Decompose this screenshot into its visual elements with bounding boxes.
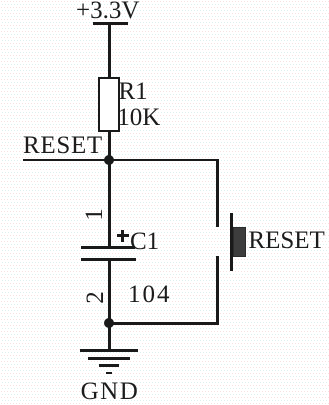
resistor value 10K: [117, 105, 160, 130]
power +3.3V label: [76, 0, 139, 23]
resistor designator R1: [119, 79, 148, 104]
junction node at ground net: [104, 318, 114, 328]
junction node at RESET net: [104, 155, 114, 165]
ground symbol bar 3: [99, 364, 119, 367]
wire resistor to capacitor: [108, 131, 111, 248]
capacitor C1 pin number 1: [82, 208, 107, 221]
capacitor value 104: [128, 282, 172, 307]
resistor R1 body: [98, 77, 120, 132]
wire power bar to resistor: [108, 24, 111, 78]
net label RESET: [23, 133, 103, 158]
pushbutton actuator bar: [230, 213, 233, 271]
wire RESET horizontal net: [23, 159, 219, 162]
capacitor C1 top plate: [81, 246, 135, 249]
capacitor plus polarity mark: [117, 234, 129, 237]
capacitor C1 bottom plate: [81, 258, 136, 261]
ground symbol bar 2: [88, 357, 129, 360]
pushbutton cap: [233, 227, 246, 257]
power rail bar symbol: [93, 22, 128, 25]
wire switch upper contact: [216, 159, 219, 228]
capacitor designator C1: [130, 229, 159, 254]
ground symbol bar 4: [106, 372, 112, 374]
capacitor C1 pin number 2: [82, 291, 107, 304]
wire switch lower contact: [216, 256, 219, 324]
pushbutton label RESET: [248, 228, 324, 253]
wire capacitor to ground: [108, 260, 111, 351]
ground symbol bar 1: [80, 349, 138, 352]
ground label GND: [81, 379, 140, 404]
wire bottom horizontal to switch: [108, 322, 219, 325]
